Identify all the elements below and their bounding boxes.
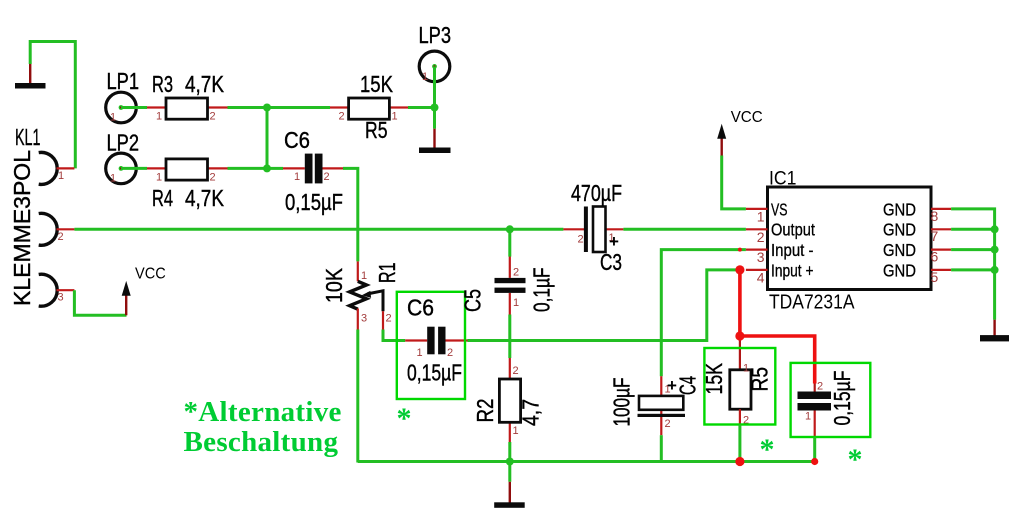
svg-text:2: 2 [817,381,823,393]
svg-text:R5: R5 [747,367,773,392]
svg-text:R2: R2 [472,399,498,423]
capacitor C5 [460,255,555,315]
svg-text:4,7K: 4,7K [185,185,225,211]
wire KL1 pin3 to VCC [74,290,126,315]
wire R4 out to junction [228,167,268,170]
ground G3 bottom center [494,482,525,508]
svg-text:Beschaltung: Beschaltung [184,426,339,458]
junction gnd rail 5 [991,266,999,274]
node tiny red dot on Input- [738,248,742,252]
wire output rail KL1 pin2 to C3 [74,228,563,231]
wire C4 to gnd rail [660,435,663,461]
svg-text:0,15µF: 0,15µF [407,360,462,386]
wire C6alt to Input+ riser [468,270,740,341]
svg-text:2: 2 [578,234,584,246]
label KLEMME3POL [9,150,35,306]
svg-text:0,15µF: 0,15µF [285,189,343,215]
IC1 pin 4 stub [746,269,768,285]
svg-text:VCC: VCC [731,109,763,126]
green box around R5 alternative [704,348,775,425]
IC1 pin 6 stub [931,249,952,265]
resistor R2 [472,358,544,442]
svg-text:1: 1 [58,170,64,182]
svg-text:1: 1 [361,270,367,282]
svg-text:6: 6 [931,249,939,265]
svg-text:Output: Output [771,220,815,240]
wire R2 to gnd rail [508,442,511,482]
wire R5alt to gnd rail [738,425,741,462]
KL1 pin 2 stub [57,229,75,243]
op-amp IC1 TDA7231A [768,169,932,314]
svg-text:*: * [397,402,412,435]
svg-text:Input -: Input - [771,240,814,260]
wire gnd rail bottom [358,460,815,463]
junction red gnd rail right [811,458,818,465]
junction red Input+ [735,265,744,274]
svg-text:1: 1 [110,173,116,185]
testpoint LP3 [419,22,452,83]
svg-text:Input +: Input + [771,260,814,280]
svg-text:2: 2 [210,111,216,123]
potentiometer R1 [321,261,400,329]
svg-text:2: 2 [513,365,519,377]
svg-text:1: 1 [805,411,811,423]
ground G4 right [980,320,1009,342]
asterisk near R5 alternative [760,433,775,466]
IC1 pin 8 stub [931,208,952,224]
junction gnd rail 6 [991,246,999,254]
svg-text:1: 1 [294,171,300,183]
svg-text:2: 2 [386,313,392,325]
svg-text:*: * [848,443,863,476]
supply VCC V2 [717,109,763,156]
IC1 pin 5 stub [931,269,952,285]
testpoint LP2 [106,130,139,185]
svg-text:5: 5 [931,269,939,285]
junction gnd rail 7 [991,225,999,233]
svg-text:4: 4 [757,269,765,285]
KL1 pin 3 stub [57,290,75,304]
svg-text:*: * [760,433,775,466]
asterisk near C6 alternative [397,402,412,435]
svg-text:0,1µF: 0,1µF [529,268,555,313]
wire C5 to R2 [508,315,511,359]
svg-text:3: 3 [361,313,367,325]
wire GND pins to right rail [951,209,995,320]
IC1 pin 1 stub [746,209,768,225]
svg-text:VCC: VCC [135,266,166,283]
wire C3 to IC pin2 [623,228,746,231]
svg-text:2: 2 [324,171,330,183]
svg-text:2: 2 [210,172,216,184]
svg-text:1: 1 [422,71,428,83]
svg-text:KL1: KL1 [15,124,41,150]
capacitor C6 top [283,127,343,215]
IC1 pin 7 stub [931,228,952,244]
label KL1 [15,124,41,150]
svg-text:R1: R1 [374,263,400,284]
testpoint LP1 [106,68,139,124]
svg-text:KLEMME3POL: KLEMME3POL [9,150,35,306]
ground G1 top-left [15,64,46,89]
svg-text:GND: GND [883,220,916,240]
svg-text:LP2: LP2 [107,130,140,156]
wire VCC to IC pin1 [722,156,746,209]
capacitor C4 electrolytic [609,376,701,435]
svg-text:2: 2 [513,267,519,279]
wire C6 right down to pot R1 [343,168,358,261]
ground G2 under LP3 [419,129,451,153]
green box around C 0,15uF alternative [791,363,871,437]
wire R3 out to junction [228,106,268,109]
resistor R5 alternative [701,363,773,427]
wire pot wiper down and right [383,330,405,341]
net red Input+ riser and branch [740,270,815,392]
wire junction to C5 [508,229,511,256]
junction B [263,164,271,172]
wire LP1 to R3 [121,106,147,109]
capacitor C3 electrolytic [563,180,623,275]
wire Input- net [661,250,746,377]
connector KL1 [39,152,58,306]
junction red branch [735,331,744,340]
junction red gnd rail left [735,457,744,466]
svg-text:C6: C6 [284,127,310,153]
junction C5 tap [506,225,514,233]
svg-text:C6: C6 [407,295,434,321]
svg-text:C3: C3 [600,249,622,275]
svg-text:2: 2 [665,418,671,430]
svg-text:*Alternative: *Alternative [184,396,342,428]
wire junction vertical [266,108,269,169]
svg-text:C4: C4 [675,376,701,395]
svg-text:1: 1 [110,112,116,124]
wire LP2 to R4 [121,167,147,170]
capacitor C alternative 0,15uF [798,371,856,438]
wire R5 to LP3 junction [408,106,435,109]
IC1 pin 3 stub [746,249,768,265]
svg-text:R4: R4 [152,185,173,211]
svg-text:GND: GND [883,260,916,280]
svg-text:R3: R3 [152,71,173,97]
capacitor C6 alternative [405,295,467,386]
wire Calt to gnd rail [813,437,816,462]
svg-text:2: 2 [339,111,345,123]
svg-text:GND: GND [883,200,916,220]
KL1 pin 1 stub [57,168,75,182]
svg-text:4,7: 4,7 [518,399,544,426]
svg-text:2: 2 [58,231,64,243]
svg-text:0,15µF: 0,15µF [829,371,855,426]
svg-text:7: 7 [931,228,939,244]
svg-text:R5: R5 [365,117,388,143]
svg-text:LP1: LP1 [107,68,140,94]
svg-text:1: 1 [513,297,519,309]
svg-text:C5: C5 [460,289,486,312]
svg-text:1: 1 [392,111,398,123]
junction LP3 [431,104,439,112]
svg-text:2: 2 [447,347,453,359]
svg-text:470µF: 470µF [571,180,622,206]
resistor R5 [330,71,408,143]
svg-text:1: 1 [156,172,162,184]
green box around C6 alternative [397,292,465,399]
svg-text:1: 1 [156,111,162,123]
svg-text:IC1: IC1 [769,169,797,190]
IC1 pin 2 stub [746,229,768,245]
svg-text:8: 8 [931,208,939,224]
resistor R3 [147,71,228,123]
wire KL1 pin1 to GND (up-over-down) [30,42,75,169]
svg-text:1: 1 [417,347,423,359]
svg-text:TDA7231A: TDA7231A [769,292,855,314]
junction A [263,104,271,112]
svg-text:3: 3 [58,292,64,304]
asterisk near C alternative [848,443,863,476]
wire LP3 down [433,66,436,128]
svg-text:3: 3 [757,249,765,265]
svg-text:100µF: 100µF [609,378,635,427]
svg-text:4,7K: 4,7K [185,71,225,97]
note Alternative Beschaltung [184,396,342,458]
svg-text:GND: GND [883,240,916,260]
svg-text:15K: 15K [360,71,394,97]
svg-text:LP3: LP3 [419,22,452,48]
resistor R4 [147,159,228,211]
svg-text:10K: 10K [321,267,347,303]
svg-text:1: 1 [757,209,765,225]
junction R2 gnd [506,458,514,466]
svg-text:VS: VS [771,200,788,220]
wire junction to R5 [267,106,330,109]
wire junction B to C6 [267,167,283,170]
wire pot pin3 down to gnd rail [356,330,359,463]
supply VCC V1 [122,266,166,316]
svg-text:2: 2 [757,229,765,245]
